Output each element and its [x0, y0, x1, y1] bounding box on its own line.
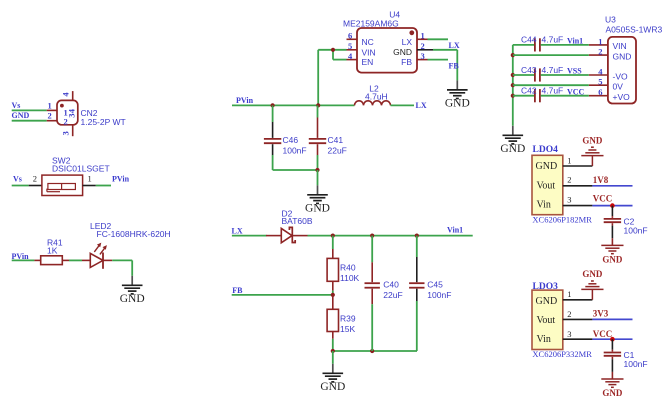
svg-text:Vin: Vin: [537, 200, 551, 211]
label U3: [605, 15, 616, 25]
svg-text:C45: C45: [427, 279, 443, 289]
svg-text:3: 3: [66, 114, 76, 118]
svg-text:GND: GND: [305, 203, 330, 215]
svg-text:C40: C40: [383, 279, 399, 289]
svg-text:Vin1: Vin1: [567, 36, 583, 45]
ground: [445, 80, 470, 109]
wire pin2: [513, 54, 589, 56]
svg-text:1: 1: [421, 31, 425, 41]
svg-text:4.7uF: 4.7uF: [542, 35, 564, 45]
regulator LDO4 body: [532, 155, 592, 214]
junction rail C42: [511, 94, 515, 98]
svg-text:FB: FB: [449, 62, 460, 71]
net label LX: [232, 226, 243, 235]
IC U3 body: [589, 36, 636, 103]
svg-text:3: 3: [567, 194, 571, 204]
net label Vin1: [567, 36, 583, 45]
label LED2: [90, 221, 112, 231]
svg-text:PVin: PVin: [236, 96, 254, 105]
wire bottom rail: [333, 350, 417, 352]
svg-text:U3: U3: [605, 15, 616, 25]
label R39: [340, 313, 356, 323]
svg-text:100nF: 100nF: [624, 359, 648, 369]
svg-text:FB: FB: [401, 57, 412, 67]
svg-text:GND: GND: [582, 135, 603, 145]
resistor R41: [34, 256, 69, 265]
svg-text:-VO: -VO: [613, 71, 629, 81]
wire cap bottoms: [273, 169, 318, 171]
svg-text:C41: C41: [328, 135, 344, 145]
svg-text:GND: GND: [500, 143, 525, 155]
label LDO3: [533, 282, 559, 292]
value ME2159AM6G: [343, 19, 399, 29]
value 4.7uF: [542, 86, 564, 96]
net label VCC: [593, 329, 613, 339]
ground: [120, 276, 145, 305]
value FC-1608HRK-620H: [97, 229, 171, 239]
svg-text:22uF: 22uF: [383, 290, 402, 300]
junction C45: [415, 234, 419, 238]
junction VCC C1: [610, 337, 615, 342]
regulator LDO3 body: [532, 289, 592, 349]
value 100nF: [624, 359, 648, 369]
net label 1V8: [593, 175, 609, 185]
wire FB: [232, 294, 333, 296]
label C40: [383, 279, 399, 289]
diode D2: [266, 227, 308, 242]
wire D2 to Vin1: [308, 235, 473, 237]
svg-text:Vs: Vs: [12, 101, 21, 110]
wire R41 to LED2: [69, 259, 82, 261]
svg-text:ME2159AM6G: ME2159AM6G: [343, 19, 399, 29]
wire SW2 pin 1 to PVin: [96, 185, 111, 187]
wire VIN EN tie: [318, 50, 346, 60]
svg-text:FC-1608HRK-620H: FC-1608HRK-620H: [97, 229, 171, 239]
power flag GND above LDO3: [581, 269, 603, 300]
svg-text:C46: C46: [283, 135, 299, 145]
svg-text:1: 1: [598, 36, 602, 46]
power flag GND below C2: [601, 245, 623, 264]
label C46: [283, 135, 299, 145]
power flag GND below C1: [601, 379, 623, 398]
label C1: [624, 350, 635, 360]
junction R40: [331, 234, 335, 238]
value DSIC01LSGET: [52, 164, 110, 174]
switch SW2: [29, 174, 96, 196]
capacitor C44: [513, 38, 589, 51]
net label PVin: [236, 96, 254, 105]
svg-text:2: 2: [421, 41, 425, 51]
label L2: [369, 83, 379, 93]
junction cap ground: [315, 168, 319, 172]
svg-text:100nF: 100nF: [624, 226, 648, 236]
net label Vs: [12, 101, 21, 110]
ground: [320, 364, 345, 393]
svg-text:LDO4: LDO4: [533, 145, 559, 155]
svg-text:22uF: 22uF: [328, 146, 347, 156]
label C43: [521, 65, 537, 75]
wire Vs to CN2 pin 1: [12, 109, 47, 111]
svg-text:3: 3: [421, 51, 425, 61]
svg-text:0V: 0V: [613, 82, 624, 92]
net label LX: [449, 41, 460, 50]
wire to ground: [317, 170, 319, 185]
wire Vs to SW2 pin 2: [12, 185, 29, 187]
svg-text:2: 2: [567, 309, 571, 319]
svg-text:XC6206P182MR: XC6206P182MR: [532, 215, 592, 225]
junction FB: [331, 293, 335, 297]
svg-text:C43: C43: [521, 65, 537, 75]
value 1.25-2P WT: [81, 117, 126, 127]
svg-text:Vin1: Vin1: [447, 226, 463, 235]
value 4.7uF: [542, 35, 564, 45]
svg-text:1K: 1K: [47, 246, 58, 256]
svg-text:2: 2: [48, 111, 52, 121]
wire to ground: [332, 351, 334, 364]
svg-text:4.7uF: 4.7uF: [542, 86, 564, 96]
ground: [305, 185, 330, 214]
label C45: [427, 279, 443, 289]
wire L2 to LX: [391, 104, 415, 106]
junction rail R39: [331, 349, 335, 353]
svg-text:VCC: VCC: [593, 194, 613, 204]
value XC6206P332MR: [532, 349, 592, 359]
svg-text:C44: C44: [521, 35, 537, 45]
net label PVin: [12, 252, 30, 261]
value 100nF: [624, 226, 648, 236]
resistor R40: [327, 236, 338, 295]
svg-text:100nF: 100nF: [427, 290, 451, 300]
svg-text:GND: GND: [602, 388, 623, 398]
svg-text:VIN: VIN: [613, 41, 627, 51]
svg-text:GND: GND: [613, 51, 632, 61]
label D2: [282, 209, 293, 219]
svg-text:3: 3: [60, 131, 70, 135]
svg-text:XC6206P332MR: XC6206P332MR: [532, 349, 592, 359]
capacitor C2: [604, 206, 621, 246]
wire PVin to R41: [12, 259, 35, 261]
wire U4 pin 1 to LX: [428, 38, 449, 40]
label CN2: [81, 108, 98, 118]
value 15K: [340, 324, 355, 334]
label C41: [328, 135, 344, 145]
capacitor C41: [309, 105, 326, 170]
label LDO4: [533, 145, 559, 155]
svg-text:1: 1: [48, 100, 52, 110]
junction C40: [370, 234, 374, 238]
svg-text:Vout: Vout: [537, 315, 556, 326]
junction C41: [316, 103, 320, 107]
net label FB: [449, 62, 460, 71]
svg-text:DSIC01LSGET: DSIC01LSGET: [52, 164, 110, 174]
svg-text:15K: 15K: [340, 324, 355, 334]
junction rail pin5: [511, 83, 515, 87]
net label VCC: [567, 87, 585, 96]
label C2: [624, 217, 635, 227]
wire LED2 to ground: [112, 260, 132, 275]
value A0505S-1WR3: [606, 24, 663, 34]
svg-text:6: 6: [598, 87, 602, 97]
wire U4 pin 3 to FB: [428, 59, 449, 61]
net label VSS: [567, 67, 582, 76]
wire riser to PVin rail: [317, 50, 319, 106]
svg-text:A0505S-1WR3: A0505S-1WR3: [606, 24, 663, 34]
wire pin5: [513, 84, 589, 86]
label C44: [521, 35, 537, 45]
value 22uF: [383, 290, 402, 300]
svg-text:FB: FB: [232, 286, 243, 295]
capacitor C45: [409, 236, 424, 351]
value 4.7uF: [542, 65, 564, 75]
svg-text:GND: GND: [320, 381, 345, 393]
capacitor C42: [513, 89, 589, 102]
label R40: [340, 263, 356, 273]
svg-text:1: 1: [567, 155, 571, 165]
svg-text:110K: 110K: [340, 273, 360, 283]
svg-text:5: 5: [348, 41, 352, 51]
value 100nF: [427, 290, 451, 300]
svg-text:1: 1: [567, 289, 571, 299]
LED LED2: [82, 243, 112, 269]
svg-text:C42: C42: [521, 86, 537, 96]
svg-text:GND: GND: [393, 47, 412, 57]
svg-text:VCC: VCC: [593, 329, 613, 339]
svg-text:LX: LX: [416, 101, 427, 110]
value 110K: [340, 273, 360, 283]
capacitor C1: [604, 339, 621, 379]
junction rail C43: [511, 73, 515, 77]
svg-text:5: 5: [598, 77, 602, 87]
junction VCC C2: [610, 203, 615, 208]
op-amp U4 body: [347, 28, 434, 73]
label C42: [521, 86, 537, 96]
svg-text:Vout: Vout: [537, 181, 556, 192]
label SW2: [52, 155, 71, 165]
svg-text:GND: GND: [602, 254, 623, 264]
svg-text:NC: NC: [362, 37, 374, 47]
svg-text:3: 3: [567, 329, 571, 339]
net label LX: [416, 101, 427, 110]
wire GND to CN2 pin 2: [12, 120, 47, 122]
junction rail pin2: [511, 53, 515, 57]
svg-text:VSS: VSS: [567, 67, 582, 76]
svg-text:LX: LX: [402, 37, 413, 47]
svg-text:2: 2: [33, 174, 37, 184]
value 1K: [47, 246, 58, 256]
value 22uF: [328, 146, 347, 156]
label R41: [47, 237, 63, 247]
svg-text:6: 6: [348, 31, 352, 41]
svg-text:EN: EN: [362, 57, 374, 67]
svg-text:1: 1: [88, 174, 92, 184]
net label VCC: [593, 194, 613, 204]
svg-text:3V3: 3V3: [593, 308, 609, 318]
capacitor C43: [513, 68, 589, 81]
wire 3V3: [592, 318, 632, 320]
value BAT60B: [282, 216, 313, 226]
svg-text:BAT60B: BAT60B: [282, 216, 313, 226]
net label GND: [12, 111, 30, 120]
net label 3V3: [593, 308, 609, 318]
svg-text:Vin: Vin: [537, 334, 551, 345]
svg-text:GND: GND: [445, 98, 470, 110]
net label Vs: [13, 174, 22, 183]
inductor L2: [355, 101, 391, 106]
svg-text:2: 2: [567, 175, 571, 185]
junction VIN/EN: [331, 48, 335, 52]
svg-text:VCC: VCC: [567, 87, 585, 96]
wire U4 pin 2 to ground: [433, 50, 457, 81]
svg-text:GND: GND: [12, 111, 30, 120]
svg-text:R39: R39: [340, 313, 356, 323]
junction rail C40: [370, 349, 374, 353]
label U4: [389, 10, 400, 20]
svg-text:+VO: +VO: [613, 92, 631, 102]
net label Vin1: [447, 226, 463, 235]
power flag GND above LDO4: [581, 135, 603, 166]
resistor R39: [327, 295, 338, 351]
svg-text:Vs: Vs: [13, 174, 22, 183]
wire left rail: [512, 45, 514, 126]
wire LX to D2: [232, 235, 267, 237]
value 4.7uH: [365, 92, 388, 102]
value 100nF: [283, 146, 307, 156]
svg-text:100nF: 100nF: [283, 146, 307, 156]
svg-text:1.25-2P WT: 1.25-2P WT: [81, 117, 126, 127]
wire VCC: [592, 205, 632, 207]
svg-text:4.7uH: 4.7uH: [365, 92, 388, 102]
svg-text:4.7uF: 4.7uF: [542, 65, 564, 75]
svg-text:GND: GND: [536, 161, 558, 172]
svg-text:GND: GND: [582, 269, 603, 279]
wire PVin rail: [232, 104, 355, 106]
svg-text:4: 4: [598, 66, 603, 76]
value XC6206P182MR: [532, 215, 592, 225]
capacitor C40: [365, 236, 380, 351]
svg-text:2: 2: [598, 47, 602, 57]
svg-text:GND: GND: [120, 293, 145, 305]
wire VCC: [592, 338, 632, 340]
wire 1V8: [592, 185, 632, 187]
junction C46: [271, 103, 275, 107]
svg-text:R40: R40: [340, 263, 356, 273]
svg-text:PVin: PVin: [112, 174, 130, 183]
net label PVin: [112, 174, 130, 183]
svg-text:LX: LX: [449, 41, 460, 50]
capacitor C46: [264, 105, 281, 170]
svg-text:1V8: 1V8: [593, 175, 609, 185]
svg-text:VIN: VIN: [362, 47, 376, 57]
net label FB: [232, 286, 243, 295]
ground: [500, 126, 525, 155]
svg-text:GND: GND: [536, 296, 558, 307]
connector CN2: [47, 91, 78, 136]
svg-text:LX: LX: [232, 226, 243, 235]
